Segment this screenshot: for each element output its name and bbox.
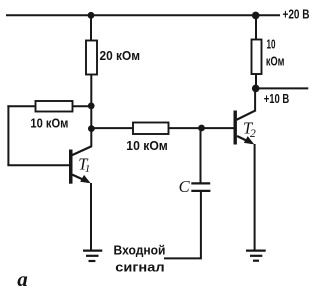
wire +10V output [256,87,309,89]
svg-text:10 кОм: 10 кОм [126,138,168,153]
svg-text:кОм: кОм [266,53,285,68]
node junction rail/R1 [88,12,95,19]
wire T2 emitter vertical [254,144,256,250]
resistor R1 20 кОм [86,41,97,75]
wire R2 left lead [7,105,35,107]
svg-text:10 кОм: 10 кОм [30,115,68,130]
svg-text:а: а [17,267,28,291]
svg-text:10: 10 [267,37,276,52]
wire T2 collector vertical [254,88,256,110]
wire capacitor top lead [200,128,202,183]
node junction R4/+10V/T2 collector [252,85,260,93]
wire R1 top lead [90,15,92,40]
wire +20V top rail [6,14,280,16]
wire R3 leads node to T2 base [91,127,234,129]
svg-text:сигнал: сигнал [115,259,164,274]
svg-text:20 кОм: 20 кОм [100,48,141,63]
node junction R3/C/T2 base [198,125,205,132]
resistor R4 10 кОм right [252,40,262,75]
ground right [246,251,266,261]
ground left [83,251,102,261]
node junction R3/collector branch [88,125,95,132]
wire R1 bottom lead / T1 collector vertical [90,75,92,147]
svg-text:+10 В: +10 В [264,91,290,106]
wire T1 base [7,164,70,166]
node junction R2/collector branch [88,103,95,110]
node junction rail/R4 [252,12,260,20]
transistor T2 [234,110,256,144]
svg-text:Входной: Входной [114,243,166,258]
svg-text:C: C [179,177,191,196]
wire capacitor bottom lead [164,191,201,259]
svg-text:1: 1 [85,163,91,175]
wire R4 top lead [255,15,257,39]
resistor R3 10 кОм middle [133,123,169,135]
svg-text:+20 В: +20 В [283,7,310,22]
resistor R2 10 кОм left [36,101,73,112]
wire T1 emitter vertical [90,183,92,250]
transistor T1 [69,146,92,184]
wire R2 right lead [73,105,92,107]
wire R4 bottom lead [255,74,257,88]
wire left feedback vertical [7,105,9,165]
capacitor C [191,183,210,191]
svg-text:2: 2 [250,128,256,140]
